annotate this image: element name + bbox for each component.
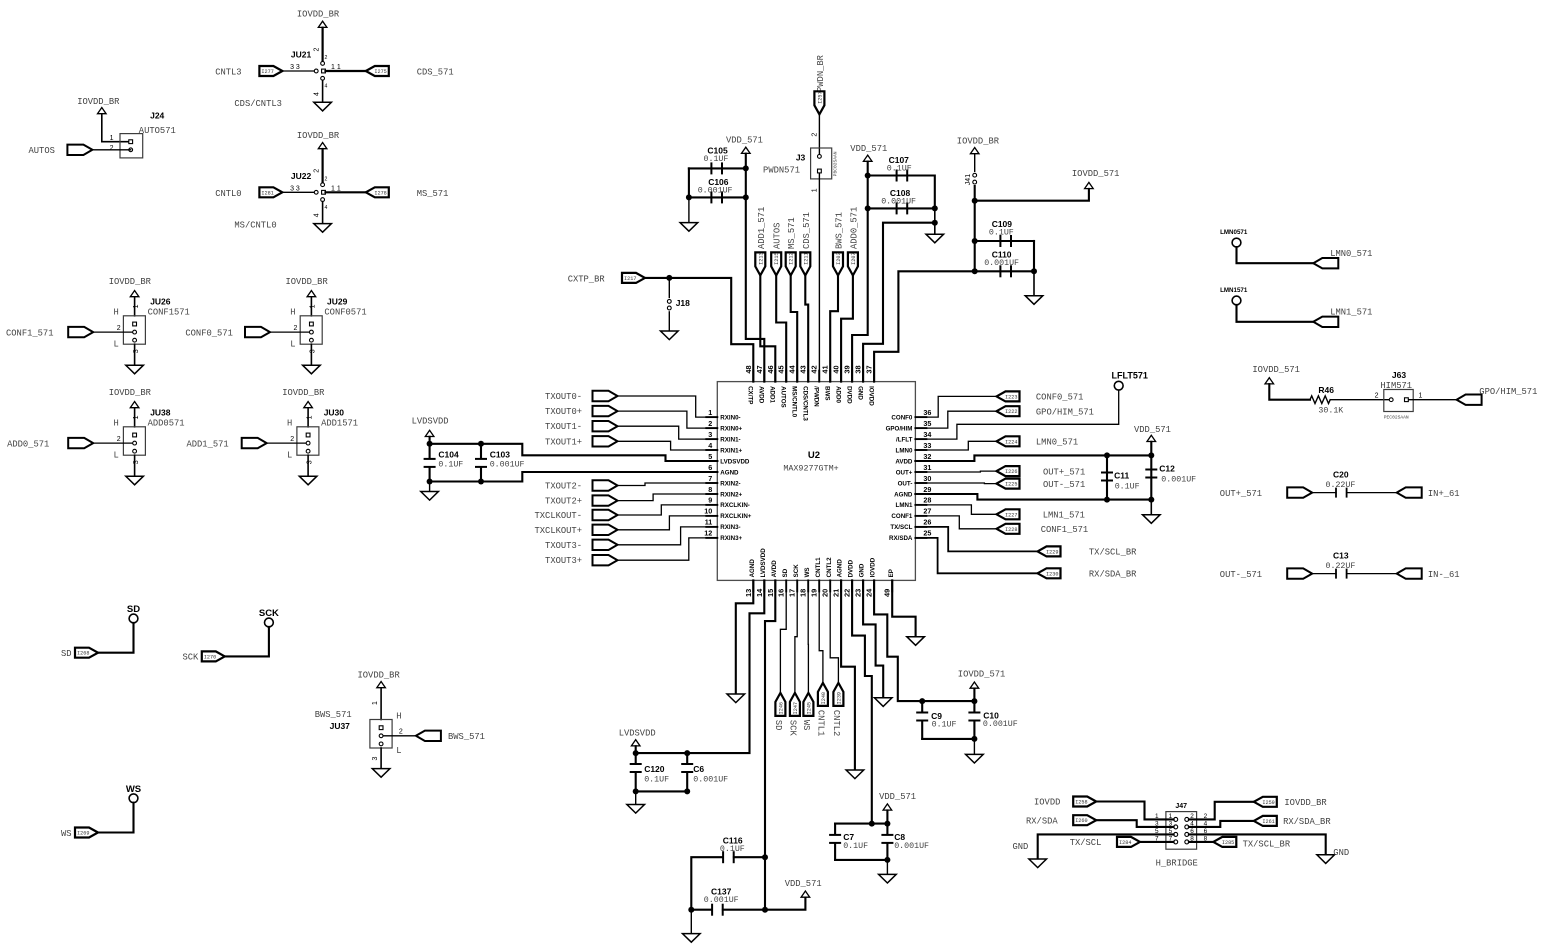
svg-text:3: 3 — [306, 460, 313, 464]
svg-text:IOVDD_571: IOVDD_571 — [958, 670, 1006, 680]
svg-text:RX/SDA: RX/SDA — [889, 535, 913, 542]
svg-text:LMN1_571: LMN1_571 — [1043, 511, 1085, 521]
svg-text:C104: C104 — [438, 450, 459, 460]
svg-text:I239: I239 — [836, 692, 842, 704]
svg-text:EP: EP — [888, 569, 895, 577]
svg-text:AVDD: AVDD — [895, 458, 913, 465]
svg-text:AUTOS: AUTOS — [773, 223, 783, 249]
svg-text:30.1K: 30.1K — [1318, 407, 1343, 416]
svg-text:CNTL1: CNTL1 — [815, 557, 822, 577]
svg-text:11: 11 — [705, 518, 713, 527]
svg-text:CDS/CNTL3: CDS/CNTL3 — [802, 386, 809, 421]
svg-text:33: 33 — [923, 441, 931, 450]
svg-text:4: 4 — [325, 84, 328, 90]
svg-text:0.001UF: 0.001UF — [698, 187, 733, 196]
svg-text:25: 25 — [923, 529, 931, 538]
svg-text:L: L — [287, 450, 292, 460]
svg-text:SD: SD — [782, 568, 789, 577]
svg-text:2: 2 — [325, 176, 328, 182]
svg-text:TX/SCL_BR: TX/SCL_BR — [1089, 548, 1137, 558]
svg-text:16: 16 — [777, 589, 786, 597]
svg-text:3 3: 3 3 — [290, 64, 300, 71]
svg-text:H: H — [114, 419, 119, 429]
svg-text:C8: C8 — [894, 832, 905, 842]
svg-text:LMN1: LMN1 — [896, 502, 913, 509]
svg-text:0.1UF: 0.1UF — [932, 721, 957, 730]
svg-text:CONF1_571: CONF1_571 — [6, 328, 54, 338]
svg-text:DVDD: DVDD — [848, 559, 855, 577]
svg-text:C13: C13 — [1333, 551, 1349, 561]
svg-text:18: 18 — [799, 589, 808, 597]
svg-text:4: 4 — [314, 92, 321, 96]
svg-text:CNTL1: CNTL1 — [816, 710, 826, 736]
svg-text:C20: C20 — [1333, 470, 1349, 480]
svg-text:C110: C110 — [992, 249, 1012, 259]
svg-text:L: L — [114, 339, 119, 349]
svg-text:OUT+: OUT+ — [896, 469, 913, 476]
svg-text:OUT+_571: OUT+_571 — [1043, 467, 1085, 477]
svg-text:2: 2 — [811, 133, 818, 137]
svg-text:CNTL0: CNTL0 — [215, 189, 241, 199]
svg-text:ADD0571: ADD0571 — [148, 418, 185, 428]
svg-text:9: 9 — [708, 496, 712, 505]
svg-text:AGND: AGND — [749, 559, 756, 578]
svg-text:LMN1571: LMN1571 — [1220, 287, 1248, 294]
svg-text:I269: I269 — [77, 831, 89, 837]
svg-text:ADD1_571: ADD1_571 — [757, 207, 767, 249]
svg-text:TXOUT2-: TXOUT2- — [545, 482, 582, 492]
svg-text:IOVDD_BR: IOVDD_BR — [109, 388, 152, 398]
svg-text:TXCLKOUT+: TXCLKOUT+ — [534, 526, 582, 536]
svg-text:LVDSVDD: LVDSVDD — [412, 417, 449, 427]
svg-text:J47: J47 — [1175, 803, 1187, 810]
svg-text:IN-_61: IN-_61 — [1428, 570, 1460, 580]
svg-text:RX/SDA_BR: RX/SDA_BR — [1283, 817, 1331, 827]
svg-text:49: 49 — [883, 589, 892, 597]
svg-text:J18: J18 — [676, 298, 690, 308]
svg-text:1: 1 — [110, 135, 114, 142]
svg-text:H: H — [114, 308, 119, 318]
svg-text:C11: C11 — [1114, 471, 1129, 481]
svg-text:CDS_571: CDS_571 — [802, 212, 812, 249]
svg-text:0.001UF: 0.001UF — [984, 259, 1019, 268]
svg-text:IOVDD_BR: IOVDD_BR — [286, 277, 329, 287]
svg-text:VDD_571: VDD_571 — [879, 792, 916, 802]
svg-text:TX/SCL_BR: TX/SCL_BR — [1243, 839, 1291, 849]
svg-text:C137: C137 — [711, 887, 732, 897]
svg-text:SCK: SCK — [182, 653, 199, 663]
svg-text:I259: I259 — [1262, 800, 1274, 806]
svg-text:L: L — [396, 746, 401, 756]
svg-text:IOVDD_BR: IOVDD_BR — [297, 10, 340, 20]
svg-text:C105: C105 — [707, 145, 728, 155]
svg-text:RXCLKIN+: RXCLKIN+ — [720, 513, 751, 520]
svg-text:I226: I226 — [1005, 469, 1017, 475]
svg-text:MAX9277GTM+: MAX9277GTM+ — [783, 464, 838, 474]
svg-text:PBC02SAAN: PBC02SAAN — [833, 151, 839, 176]
svg-text:1: 1 — [811, 188, 818, 192]
svg-text:8: 8 — [708, 485, 712, 494]
svg-text:LVDSVDD: LVDSVDD — [720, 458, 750, 465]
svg-text:48: 48 — [744, 365, 753, 373]
svg-text:I240: I240 — [821, 692, 827, 704]
svg-text:ADD1_571: ADD1_571 — [186, 439, 228, 449]
svg-text:0.1UF: 0.1UF — [644, 776, 669, 785]
svg-text:TX/SCL: TX/SCL — [1070, 838, 1102, 848]
svg-text:2: 2 — [708, 419, 712, 428]
svg-text:CONF0: CONF0 — [891, 414, 913, 421]
svg-text:17: 17 — [788, 589, 797, 597]
svg-text:JU26: JU26 — [150, 297, 171, 307]
svg-text:C120: C120 — [644, 764, 665, 774]
svg-text:PWDN_BR: PWDN_BR — [816, 54, 826, 92]
svg-text:RXIN2-: RXIN2- — [720, 480, 740, 487]
svg-text:15: 15 — [766, 589, 775, 597]
svg-text:I278: I278 — [374, 190, 386, 196]
svg-text:0.001UF: 0.001UF — [894, 842, 929, 851]
svg-text:3: 3 — [133, 349, 140, 353]
svg-text:26: 26 — [923, 518, 931, 527]
svg-text:4: 4 — [325, 205, 328, 211]
svg-text:H_BRIDGE: H_BRIDGE — [1156, 858, 1198, 868]
svg-text:C103: C103 — [490, 450, 511, 460]
svg-text:AUTOS: AUTOS — [29, 146, 55, 156]
svg-text:1 1: 1 1 — [331, 186, 341, 193]
svg-text:I258: I258 — [1075, 800, 1087, 806]
svg-text:TXOUT3+: TXOUT3+ — [545, 556, 582, 566]
svg-text:IOVDD: IOVDD — [870, 557, 877, 577]
svg-text:LMN1_571: LMN1_571 — [1330, 308, 1372, 318]
svg-text:AGND: AGND — [894, 491, 913, 498]
svg-text:H: H — [290, 308, 295, 318]
svg-text:3 3: 3 3 — [290, 186, 300, 193]
svg-text:GND: GND — [1333, 848, 1349, 858]
svg-text:RXIN3+: RXIN3+ — [720, 535, 742, 542]
svg-text:J3: J3 — [796, 152, 806, 162]
svg-text:I229: I229 — [1046, 549, 1058, 555]
svg-text:0.001UF: 0.001UF — [881, 197, 916, 206]
svg-text:0.001UF: 0.001UF — [693, 776, 728, 785]
svg-text:GPO/HIM: GPO/HIM — [886, 425, 913, 432]
svg-text:31: 31 — [923, 463, 931, 472]
svg-text:J24: J24 — [150, 110, 164, 120]
svg-text:JU29: JU29 — [327, 297, 348, 307]
svg-text:41: 41 — [821, 365, 830, 373]
svg-text:AGND: AGND — [720, 469, 739, 476]
svg-text:WS: WS — [61, 829, 72, 839]
svg-text:0.1UF: 0.1UF — [704, 155, 729, 164]
svg-text:I225: I225 — [1005, 482, 1017, 488]
svg-text:LVDSVDD: LVDSVDD — [619, 729, 656, 739]
svg-text:2: 2 — [399, 729, 403, 736]
svg-text:I228: I228 — [1005, 527, 1017, 533]
svg-text:IOVDD_571: IOVDD_571 — [1072, 169, 1120, 179]
svg-text:43: 43 — [799, 365, 808, 373]
svg-text:0.22UF: 0.22UF — [1326, 481, 1356, 490]
svg-text:0.001UF: 0.001UF — [704, 896, 739, 905]
svg-text:1: 1 — [306, 415, 313, 419]
svg-text:CONF1_571: CONF1_571 — [1041, 525, 1089, 535]
svg-text:GND: GND — [859, 563, 866, 577]
svg-text:ADD1571: ADD1571 — [321, 418, 358, 428]
svg-text:CDS_571: CDS_571 — [417, 68, 454, 78]
svg-text:OUT+_571: OUT+_571 — [1220, 489, 1262, 499]
svg-text:C12: C12 — [1159, 464, 1175, 474]
svg-text:45: 45 — [777, 365, 786, 373]
svg-text:7: 7 — [708, 474, 712, 483]
svg-text:27: 27 — [923, 507, 931, 516]
svg-text:44: 44 — [788, 364, 797, 373]
svg-text:GND: GND — [856, 386, 863, 400]
svg-text:20: 20 — [821, 589, 830, 597]
svg-text:0.1UF: 0.1UF — [887, 165, 912, 174]
svg-text:JU38: JU38 — [150, 408, 171, 418]
svg-text:I281: I281 — [261, 190, 273, 196]
svg-text:VDD_571: VDD_571 — [1134, 425, 1171, 435]
svg-text:23: 23 — [854, 589, 863, 597]
svg-text:BWS_571: BWS_571 — [315, 710, 352, 720]
svg-text:RXIN2+: RXIN2+ — [720, 491, 742, 498]
svg-text:OUT-: OUT- — [898, 480, 913, 487]
svg-text:IOVDD_BR: IOVDD_BR — [77, 97, 120, 107]
svg-text:I260: I260 — [1075, 818, 1087, 824]
svg-text:RXIN1+: RXIN1+ — [720, 447, 742, 454]
svg-text:1: 1 — [372, 701, 379, 705]
svg-text:RXIN0+: RXIN0+ — [720, 425, 742, 432]
svg-text:1: 1 — [133, 304, 140, 308]
svg-text:AUTOS: AUTOS — [780, 386, 787, 408]
svg-text:VDD_571: VDD_571 — [726, 135, 763, 145]
svg-text:39: 39 — [843, 365, 852, 373]
svg-text:H: H — [287, 419, 292, 429]
svg-text:WS: WS — [804, 567, 811, 577]
svg-text:IOVDD: IOVDD — [1034, 798, 1060, 808]
svg-text:JU21: JU21 — [291, 50, 312, 60]
svg-text:47: 47 — [755, 365, 764, 373]
svg-text:TXOUT2+: TXOUT2+ — [545, 497, 582, 507]
svg-text:38: 38 — [854, 365, 863, 373]
svg-text:AUTO571: AUTO571 — [139, 126, 176, 136]
svg-text:SD: SD — [773, 720, 783, 731]
svg-text:LMN0: LMN0 — [896, 447, 913, 454]
svg-text:19: 19 — [810, 589, 819, 597]
svg-text:IOVDD_BR: IOVDD_BR — [109, 277, 152, 287]
svg-text:JU37: JU37 — [330, 721, 351, 731]
svg-text:1: 1 — [310, 304, 317, 308]
svg-text:0.22UF: 0.22UF — [1326, 562, 1356, 571]
svg-text:2: 2 — [314, 48, 321, 52]
svg-text:C116: C116 — [723, 835, 743, 845]
svg-text:RXIN1-: RXIN1- — [720, 436, 740, 443]
svg-text:I215: I215 — [774, 252, 780, 264]
svg-text:IOVDD: IOVDD — [867, 386, 874, 406]
svg-text:1 1: 1 1 — [331, 64, 341, 71]
svg-text:46: 46 — [766, 365, 775, 373]
svg-text:6: 6 — [708, 463, 712, 472]
svg-text:TXOUT1+: TXOUT1+ — [545, 437, 582, 447]
svg-text:SCK: SCK — [793, 564, 800, 578]
svg-text:I275: I275 — [374, 69, 386, 75]
svg-text:3: 3 — [708, 430, 712, 439]
svg-text:2: 2 — [290, 436, 294, 443]
svg-text:1: 1 — [133, 415, 140, 419]
svg-text:IOVDD_BR: IOVDD_BR — [957, 136, 1000, 146]
svg-text:CONF0_571: CONF0_571 — [185, 328, 233, 338]
svg-text:0.001UF: 0.001UF — [490, 461, 525, 470]
svg-text:GPO/HIM_571: GPO/HIM_571 — [1479, 387, 1537, 397]
svg-text:C109: C109 — [992, 219, 1013, 229]
svg-text:OUT-_571: OUT-_571 — [1220, 570, 1262, 580]
svg-text:4: 4 — [708, 441, 712, 450]
svg-text:JU30: JU30 — [324, 408, 345, 418]
svg-text:ADD0_571: ADD0_571 — [849, 207, 859, 249]
svg-text:2: 2 — [325, 55, 328, 61]
svg-text:2: 2 — [117, 325, 121, 332]
svg-text:LFLT571: LFLT571 — [1112, 370, 1148, 380]
svg-text:TX/SCL: TX/SCL — [890, 524, 912, 531]
svg-text:I222: I222 — [1005, 409, 1017, 415]
svg-text:CONF1: CONF1 — [891, 513, 913, 520]
svg-text:0.1UF: 0.1UF — [720, 845, 745, 854]
svg-text:TXCLKOUT-: TXCLKOUT- — [534, 511, 582, 521]
svg-text:0.1UF: 0.1UF — [843, 842, 868, 851]
svg-text:RX/SDA_BR: RX/SDA_BR — [1089, 570, 1137, 580]
svg-text:I212: I212 — [789, 252, 795, 264]
svg-text:MS/CNTL0: MS/CNTL0 — [791, 386, 798, 417]
svg-text:PWDN571: PWDN571 — [763, 165, 800, 175]
svg-text:IOVDD_571: IOVDD_571 — [1252, 365, 1300, 375]
svg-text:HIM571: HIM571 — [1380, 381, 1412, 391]
svg-text:C7: C7 — [843, 832, 854, 842]
svg-text:SCK: SCK — [788, 720, 798, 737]
svg-text:3: 3 — [372, 757, 379, 761]
svg-text:TXOUT0+: TXOUT0+ — [545, 407, 582, 417]
svg-text:I246: I246 — [778, 702, 784, 714]
svg-text:L: L — [290, 339, 295, 349]
svg-text:2: 2 — [314, 169, 321, 173]
svg-text:GND: GND — [1013, 842, 1029, 852]
svg-text:2: 2 — [1375, 393, 1379, 400]
svg-text:MS/CNTL0: MS/CNTL0 — [234, 221, 276, 231]
svg-text:H: H — [396, 712, 401, 722]
svg-text:28: 28 — [923, 496, 931, 505]
svg-text:I277: I277 — [261, 69, 273, 75]
svg-text:1: 1 — [1419, 393, 1423, 400]
svg-text:0.1UF: 0.1UF — [438, 461, 463, 470]
svg-text:I247: I247 — [793, 702, 799, 714]
svg-text:C9: C9 — [931, 711, 942, 721]
svg-text:CONF0_571: CONF0_571 — [1036, 393, 1084, 403]
svg-text:37: 37 — [865, 365, 874, 373]
svg-text:J63: J63 — [1392, 370, 1406, 380]
svg-text:I261: I261 — [1262, 819, 1274, 825]
svg-text:22: 22 — [843, 589, 852, 597]
svg-text:RX/SDA: RX/SDA — [1026, 817, 1058, 827]
svg-text:5: 5 — [708, 452, 712, 461]
svg-text:21: 21 — [832, 589, 841, 597]
svg-text:I230: I230 — [1046, 571, 1058, 577]
svg-text:2: 2 — [117, 436, 121, 443]
svg-text:OUT-_571: OUT-_571 — [1043, 480, 1085, 490]
svg-text:CNTL2: CNTL2 — [831, 710, 841, 736]
svg-text:0.1UF: 0.1UF — [989, 229, 1014, 238]
svg-text:3: 3 — [133, 460, 140, 464]
svg-text:4: 4 — [314, 213, 321, 217]
svg-text:IOVDD_BR: IOVDD_BR — [282, 388, 325, 398]
svg-text:ADD0: ADD0 — [834, 386, 841, 403]
svg-text:RXIN3-: RXIN3- — [720, 524, 740, 531]
svg-text:LMN0571: LMN0571 — [1220, 229, 1248, 236]
svg-text:I270: I270 — [204, 654, 216, 660]
svg-text:I203: I203 — [836, 252, 842, 264]
svg-text:1: 1 — [708, 408, 712, 417]
svg-text:RXIN0-: RXIN0- — [720, 414, 740, 421]
svg-text:36: 36 — [923, 408, 931, 417]
svg-text:C6: C6 — [693, 764, 704, 774]
svg-text:JU22: JU22 — [291, 171, 312, 181]
svg-text:CX/TP: CX/TP — [747, 386, 754, 404]
svg-text:34: 34 — [923, 430, 931, 439]
svg-text:I284: I284 — [1119, 840, 1131, 846]
svg-text:0.1UF: 0.1UF — [1115, 483, 1140, 492]
svg-text:TXOUT3-: TXOUT3- — [545, 541, 582, 551]
svg-text:42: 42 — [810, 365, 819, 373]
svg-text:I268: I268 — [77, 651, 89, 657]
svg-text:BWS: BWS — [824, 386, 831, 400]
svg-text:32: 32 — [923, 452, 931, 461]
svg-text:3: 3 — [310, 349, 317, 353]
svg-text:GPO/HIM_571: GPO/HIM_571 — [1036, 408, 1094, 418]
svg-text:DVDD: DVDD — [845, 386, 852, 404]
svg-text:I257: I257 — [817, 91, 823, 103]
svg-text:C106: C106 — [708, 177, 729, 187]
svg-text:R46: R46 — [1318, 385, 1334, 395]
svg-text:2: 2 — [110, 145, 114, 152]
svg-text:ADD1: ADD1 — [769, 386, 776, 403]
svg-text:CXTP_BR: CXTP_BR — [568, 275, 606, 285]
svg-text:I207: I207 — [851, 252, 857, 264]
svg-text:IN+_61: IN+_61 — [1428, 489, 1460, 499]
svg-text:I211: I211 — [803, 252, 809, 264]
svg-text:CNTL2: CNTL2 — [826, 557, 833, 577]
svg-text:L: L — [114, 450, 119, 460]
svg-text:IOVDD_BR: IOVDD_BR — [358, 671, 401, 681]
svg-text:30: 30 — [923, 474, 931, 483]
svg-text:WS: WS — [801, 720, 811, 731]
svg-text:13: 13 — [744, 589, 753, 597]
svg-text:I217: I217 — [624, 276, 636, 282]
svg-text:TXOUT0-: TXOUT0- — [545, 392, 582, 402]
svg-text:LMN0_571: LMN0_571 — [1330, 249, 1372, 259]
svg-text:VDD_571: VDD_571 — [785, 879, 822, 889]
svg-text:IOVDD_BR: IOVDD_BR — [1284, 798, 1327, 808]
svg-text:I285: I285 — [1222, 840, 1234, 846]
svg-text:IOVDD_BR: IOVDD_BR — [297, 131, 340, 141]
svg-text:I213: I213 — [758, 252, 764, 264]
svg-text:CONF0571: CONF0571 — [324, 307, 366, 317]
svg-text:10: 10 — [704, 507, 712, 516]
svg-text:40: 40 — [832, 365, 841, 373]
svg-text:C10: C10 — [983, 710, 999, 720]
svg-text:0.001UF: 0.001UF — [983, 720, 1018, 729]
svg-text:TXOUT1-: TXOUT1- — [545, 422, 582, 432]
svg-text:/LFLT: /LFLT — [896, 436, 913, 443]
svg-text:12: 12 — [704, 529, 712, 538]
svg-text:14: 14 — [755, 588, 764, 597]
svg-text:29: 29 — [923, 485, 931, 494]
svg-text:BWS_571: BWS_571 — [448, 732, 485, 742]
svg-text:LVDSVDD: LVDSVDD — [760, 548, 767, 578]
